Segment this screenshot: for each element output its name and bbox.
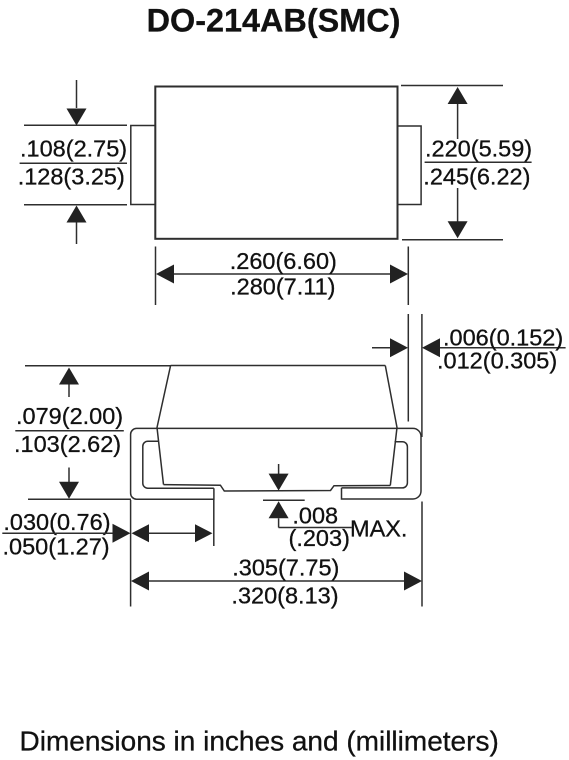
dim .305/.320 [149, 580, 404, 582]
dim .260/.280 ext left [155, 247, 157, 306]
svg-text:.320(8.13): .320(8.13) [231, 582, 338, 608]
dim .008 up arrow [269, 501, 289, 518]
dim .260/.280 line + arrows [174, 273, 390, 275]
svg-text:.079(2.00): .079(2.00) [16, 403, 123, 429]
top view: right tab [398, 126, 422, 205]
ext line left [130, 500, 132, 607]
dim .108/.128 up arrow [67, 206, 87, 223]
svg-text:.050(1.27): .050(1.27) [3, 534, 110, 560]
side view: body bottom lines [164, 485, 391, 491]
side view: body outline [157, 366, 397, 486]
svg-text:.280(7.11): .280(7.11) [230, 274, 335, 300]
dim .030/.050 arrows [132, 524, 150, 542]
svg-text:DO-214AB(SMC): DO-214AB(SMC) [147, 3, 401, 39]
dim .220/.245 ext bottom [402, 239, 503, 241]
dim .079/.103 ext top [25, 365, 171, 367]
dim .220/.245 ext top [401, 85, 503, 87]
dim .079/.103 ext bottom [28, 498, 131, 500]
svg-text:.260(6.60): .260(6.60) [230, 248, 337, 274]
ext line right [421, 502, 423, 607]
dim .079/.103 down arrow [68, 468, 70, 483]
svg-text:.012(0.305): .012(0.305) [437, 348, 557, 374]
dim .006/.012 arrows [372, 347, 390, 349]
top view: body [155, 87, 397, 239]
dim .108/.128 down arrow [76, 80, 78, 108]
dim .006/.012 ext lines [407, 314, 409, 422]
ext line foot end [213, 500, 215, 546]
side view: lead inner left [143, 441, 214, 488]
svg-text:.245(6.22): .245(6.22) [423, 163, 530, 189]
dim .008 seating tick [263, 499, 305, 501]
side view: lead inner right [342, 442, 408, 488]
svg-text:.305(7.75): .305(7.75) [232, 555, 339, 581]
side view: lead outer band [131, 428, 421, 499]
svg-text:.220(5.59): .220(5.59) [425, 135, 532, 161]
dim .108/.128 line top [24, 124, 127, 126]
svg-text:MAX.: MAX. [350, 516, 407, 542]
dim .008 down arrow [278, 464, 280, 474]
svg-text:.108(2.75): .108(2.75) [20, 136, 127, 162]
dim .260/.280 ext right [407, 247, 409, 306]
svg-text:.030(0.76): .030(0.76) [3, 509, 110, 535]
svg-text:.128(3.25): .128(3.25) [18, 164, 125, 190]
dim .108/.128 line bottom [24, 204, 127, 206]
dim .220/.245 up arrow [448, 87, 468, 104]
top view: left tab [131, 126, 156, 205]
svg-text:.103(2.62): .103(2.62) [14, 431, 121, 457]
dim .220/.245 down arrow [457, 188, 459, 222]
svg-text:(.203): (.203) [289, 525, 350, 551]
dim .079/.103 up arrow [59, 368, 79, 385]
svg-text:Dimensions in inches and (mill: Dimensions in inches and (millimeters) [20, 726, 499, 757]
